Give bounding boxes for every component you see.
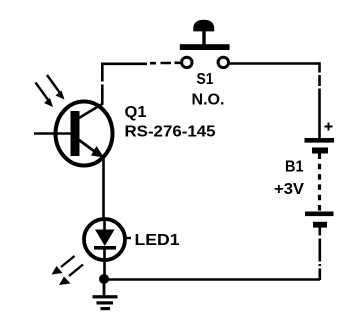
transistor Q1 xyxy=(34,102,113,166)
wire right vertical (corner down to battery +) xyxy=(318,62,321,138)
svg-text:LED1: LED1 xyxy=(135,232,180,249)
svg-text:B1: B1 xyxy=(285,159,304,176)
wire top-left horizontal (corner to S1 left terminal) xyxy=(101,63,182,64)
svg-text:N.O.: N.O. xyxy=(192,92,225,109)
battery B1 xyxy=(305,123,335,228)
ground xyxy=(93,279,118,310)
svg-text:RS-276-145: RS-276-145 xyxy=(125,124,216,141)
switch S1 xyxy=(180,20,230,68)
wire left vertical (top corner down to Q1 collector) xyxy=(101,63,104,105)
light arrow out of LED1 (lower) xyxy=(59,265,83,286)
junction node (LED / ground / battery return) xyxy=(99,274,109,284)
wire bottom horizontal (junction to battery) xyxy=(104,278,320,281)
LED LED1 xyxy=(84,219,131,260)
light arrow out of LED1 (upper) xyxy=(52,256,75,275)
svg-text:Q1: Q1 xyxy=(125,104,147,121)
svg-text:+3V: +3V xyxy=(274,181,304,198)
wire right vertical (battery - down to bottom corner) xyxy=(318,228,321,281)
wire Q1 emitter to LED1 xyxy=(102,158,105,220)
light arrow into Q1 (upper right) xyxy=(47,75,65,100)
wire LED1 to ground junction xyxy=(103,258,106,279)
wire top-right horizontal (S1 right terminal to corner) xyxy=(229,62,320,65)
svg-text:S1: S1 xyxy=(197,71,214,88)
light arrow into Q1 (lower left) xyxy=(36,83,54,108)
